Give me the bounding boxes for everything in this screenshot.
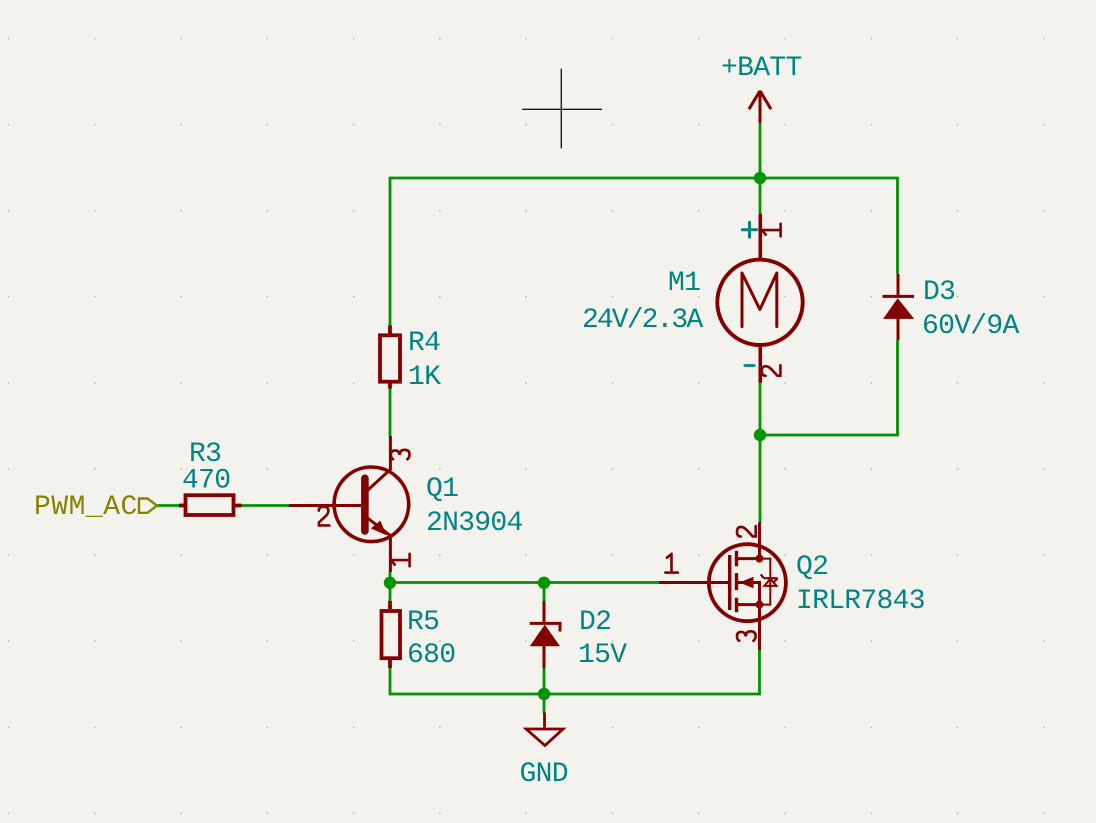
svg-text:60V/9A: 60V/9A — [922, 311, 1020, 342]
body diode triangle — [764, 579, 776, 586]
diode D3 — [883, 274, 915, 340]
transistor Q2 — [659, 523, 786, 651]
wire R3 to Q1 base — [242, 504, 290, 507]
wire label to R3 — [158, 504, 179, 507]
power symbol +BATT arrow — [749, 91, 771, 123]
body diode bar — [761, 574, 778, 582]
emitter — [368, 518, 391, 572]
junction BATT/top rail — [754, 172, 766, 184]
motor M1 — [717, 214, 802, 383]
junction dots — [384, 172, 766, 700]
wire emitter to junction — [389, 572, 392, 583]
wire R5 top — [389, 583, 392, 602]
svg-text:+BATT: +BATT — [721, 53, 802, 84]
channel segments — [735, 551, 738, 567]
wire gate net — [390, 581, 659, 584]
Q2 pin number 1 (gate) — [665, 554, 677, 573]
junction emitter node — [384, 577, 396, 589]
svg-text:15V: 15V — [578, 640, 627, 671]
Q2 pin number 3 (source) — [737, 631, 756, 641]
gate bar — [728, 555, 731, 610]
body diode branch — [760, 559, 771, 605]
M1 pin number 2 — [762, 365, 781, 376]
svg-text:1K: 1K — [408, 362, 441, 393]
svg-text:Q1: Q1 — [426, 474, 458, 505]
source — [738, 605, 760, 650]
base pin — [289, 504, 361, 507]
M1 pin name + — [742, 222, 756, 237]
svg-text:D3: D3 — [923, 277, 955, 308]
wire GND stem — [543, 694, 546, 713]
crosshair (sheet cursor) — [522, 69, 602, 149]
emitter arrow — [371, 521, 387, 536]
global label PWM_AC — [139, 499, 157, 513]
wire R5 bottom — [389, 668, 392, 694]
svg-text:24V/2.3A: 24V/2.3A — [582, 305, 703, 336]
svg-text:Q2: Q2 — [796, 552, 828, 583]
drain — [738, 523, 760, 559]
diode D2 — [530, 601, 560, 668]
wire R4 bottom to Q1 collector — [389, 389, 392, 437]
svg-text:GND: GND — [520, 759, 568, 790]
transistor Q1 — [289, 436, 409, 572]
bulk arrow — [739, 577, 753, 589]
svg-text:R4: R4 — [408, 328, 440, 359]
base bar — [361, 478, 369, 531]
svg-text:D2: D2 — [579, 607, 611, 638]
wire Q2 source down and bottom rail — [390, 650, 760, 694]
wire top rail — [390, 178, 898, 326]
collector — [368, 436, 391, 490]
resistor R5 — [382, 601, 401, 668]
Q1 pin number 1 (emitter) — [391, 554, 410, 566]
junction D2 bottom / GND — [538, 688, 550, 700]
Q1 pin number 3 (collector) — [391, 450, 410, 460]
svg-text:2N3904: 2N3904 — [426, 508, 523, 539]
svg-text:IRLR7843: IRLR7843 — [796, 586, 925, 617]
svg-text:680: 680 — [407, 640, 455, 671]
M1 pin number 1 — [762, 224, 781, 236]
ground symbol GND — [526, 713, 563, 746]
svg-text:M1: M1 — [668, 268, 700, 299]
wire junction to Q2 drain — [759, 435, 762, 523]
wire D3 top — [896, 178, 899, 273]
Q2 pin number 2 (drain) — [737, 526, 756, 537]
resistor R3 — [179, 495, 242, 515]
wire motor pin2 to junction — [759, 383, 762, 436]
bulk tie — [738, 583, 760, 605]
wire D3 bottom to motor junction — [760, 341, 898, 435]
gate pin — [659, 581, 728, 584]
wire +BATT stem — [759, 123, 762, 178]
wire motor pin1 from junction — [759, 178, 762, 214]
wire D2 bottom — [543, 668, 546, 694]
Q1 pin number 2 (base) — [319, 507, 330, 526]
junction motor bottom — [754, 429, 766, 441]
junction D2 top — [538, 577, 550, 589]
resistor R4 — [380, 326, 400, 389]
svg-text:R5: R5 — [407, 607, 439, 638]
svg-text:470: 470 — [182, 466, 230, 497]
wire D2 top — [543, 583, 546, 602]
M1 pin name - — [745, 364, 754, 367]
svg-text:PWM_AC: PWM_AC — [34, 492, 138, 523]
internal junction dots — [756, 555, 764, 563]
